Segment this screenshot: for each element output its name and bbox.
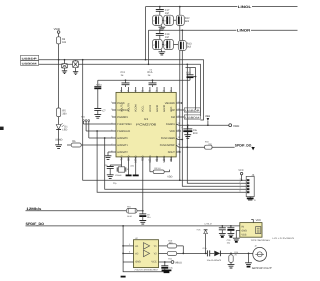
capacitor C18 (filter L output electrolytic) — [176, 6, 190, 26]
diode D3 TVS (shunt up) — [196, 228, 207, 254]
capacitor C26 electrolytic (reg input) — [227, 225, 235, 245]
U1 bottom pin stubs — [122, 157, 172, 163]
wire pin 20 stub — [176, 130, 181, 132]
U1 bottom pin labels — [120, 155, 173, 163]
wire VBUS branch down right — [187, 64, 246, 183]
svg-text:VCC: VCC — [151, 261, 156, 264]
U1 right pin labels — [160, 102, 176, 154]
wire filter L chain — [162, 19, 176, 21]
svg-text:PCM2706: PCM2706 — [136, 123, 156, 127]
junction Y join — [182, 253, 184, 255]
svg-text:HIDDAT2: HIDDAT2 — [117, 151, 128, 154]
node USBDM label at U1 — [176, 115, 200, 120]
svg-text:22p: 22p — [130, 164, 134, 167]
capacitor C20 (filter R electrolytic 1) — [153, 39, 163, 49]
wire HID1 down-route — [97, 131, 246, 192]
U1 pin number texts — [111, 89, 181, 161]
svg-text:VOUTR: VOUTR — [128, 103, 131, 112]
svg-text:10u: 10u — [169, 266, 173, 269]
capacitor C19 (filter R shunt) — [156, 29, 170, 39]
svg-text:1k5: 1k5 — [62, 41, 67, 44]
power VDD testpoint circle — [229, 124, 240, 128]
wire C18 down to lower routing — [179, 25, 181, 180]
wire HID0 row — [89, 137, 116, 139]
svg-text:VSS: VSS — [241, 233, 246, 236]
svg-text:LINOR: LINOR — [237, 29, 251, 33]
svg-text:USBDM: USBDM — [22, 63, 37, 66]
svg-text:RN1: RN1 — [81, 116, 86, 119]
resistor R10 (Y1) — [159, 239, 184, 253]
node SPDIF_DO (right) — [235, 144, 255, 151]
capacitor C24 series (SPDIF out) — [203, 247, 215, 257]
resistor R6 (left of U1) — [67, 140, 116, 147]
svg-text:AGND: AGND — [156, 105, 159, 112]
svg-text:1N4148WS: 1N4148WS — [207, 259, 222, 262]
svg-text:SPDIF_DO: SPDIF_DO — [235, 144, 252, 148]
svg-text:18: 18 — [178, 143, 181, 146]
svg-text:VOUTL: VOUTL — [120, 103, 123, 112]
svg-text:1nF: 1nF — [165, 36, 170, 39]
svg-text:AGND: AGND — [163, 105, 166, 112]
node LINOR rail — [149, 29, 237, 31]
junction shield wire — [82, 59, 84, 61]
junction bus pull-up — [58, 59, 60, 61]
node USBDM (boxed net label, left edge) — [21, 61, 39, 66]
wire SPDIF output line — [183, 252, 207, 254]
wire third bus line — [186, 68, 196, 110]
svg-text:1u: 1u — [121, 74, 124, 77]
ground (pin8 stub) — [105, 152, 116, 159]
svg-text:U3 +3.3VREG: U3 +3.3VREG — [272, 237, 294, 240]
capacitor C6 electrolytic (rail corner chain) — [94, 80, 102, 108]
svg-text:LINOL: LINOL — [238, 5, 252, 9]
ground (under FB2) — [62, 71, 67, 74]
wire VBUS pin stub — [176, 102, 182, 104]
wire filter R feed — [148, 30, 150, 64]
svg-text:USBDP: USBDP — [185, 109, 200, 112]
svg-text:VBB: VBB — [205, 115, 210, 118]
svg-text:GND: GND — [241, 229, 247, 232]
svg-text:VCOM: VCOM — [135, 105, 138, 113]
USB connector J5 — [238, 169, 254, 196]
ground (buffer bottom-left) — [121, 276, 126, 278]
wire analog supply rail above U1 — [98, 79, 185, 81]
node USBDP label at U1 — [176, 108, 200, 113]
junction buffer input — [122, 225, 124, 227]
resistor R3 1.5k pull-up — [57, 37, 67, 60]
stray mark left edge — [0, 127, 4, 130]
resistor network RN1 pull verticals — [81, 116, 90, 138]
svg-text:VDD: VDD — [256, 219, 261, 222]
power VDD (top left) — [54, 27, 61, 37]
wire HID2 down-route — [105, 138, 247, 189]
svg-text:VDD: VDD — [54, 27, 61, 31]
capacitor C10 22p (crystal right) — [126, 163, 135, 175]
ground (RCA shield) — [245, 253, 252, 267]
svg-text:USBDM: USBDM — [185, 116, 199, 119]
svg-text:VDD: VDD — [170, 107, 173, 112]
svg-text:DOUT: DOUT — [168, 151, 176, 154]
svg-text:DM: DM — [171, 116, 175, 119]
svg-text:12Mb/s: 12Mb/s — [26, 207, 41, 211]
power VCC at buffer — [159, 261, 183, 265]
capacitor C21 (filter R electrolytic 2) — [164, 39, 174, 49]
svg-text:FUNC/SPDIF: FUNC/SPDIF — [160, 144, 175, 147]
wire FUNC1 row — [86, 130, 116, 132]
ground (cap chain) — [94, 115, 101, 119]
wire SSPND stub to filter drop — [176, 138, 182, 140]
U1 left pin stubs — [112, 103, 116, 117]
ferrite bead FB1 — [126, 206, 142, 218]
capacitor C15 (filter L electrolytic 1) — [153, 15, 163, 25]
wire C22 down to USB connector pin 3 — [182, 51, 246, 187]
svg-text:DGND1: DGND1 — [166, 123, 175, 126]
capacitor C16 (filter L electrolytic 2) — [164, 15, 174, 25]
wire PSEL stub to loop — [176, 151, 180, 153]
power VDD at regulator output — [251, 219, 261, 223]
ground (pin 11) — [133, 163, 139, 175]
svg-text:VDD: VDD — [167, 176, 172, 179]
ground (regulator) — [233, 230, 240, 241]
svg-text:G: G — [254, 199, 256, 202]
resistor R16 on SPDIF out row — [176, 141, 235, 150]
svg-text:L2 BLM: L2 BLM — [204, 223, 211, 226]
wire FUNC0 row — [83, 123, 116, 125]
U1 top pin labels — [120, 103, 173, 112]
U1 top pin stubs — [122, 87, 172, 92]
svg-text:SPDIFOUT: SPDIFOUT — [252, 267, 273, 270]
svg-text:GND: GND — [135, 261, 141, 264]
svg-text:+: + — [181, 127, 183, 130]
capacitor C8 electrolytic (bead junction) — [139, 211, 151, 224]
capacitor C7 (second in chain) — [94, 109, 106, 115]
svg-text:FGND/AUX: FGND/AUX — [117, 130, 130, 133]
capacitor C23 (buffer VCC) — [161, 261, 173, 270]
svg-text:VCCR: VCCR — [149, 105, 152, 112]
svg-text:VBUS: VBUS — [175, 262, 182, 265]
capacitor C25 (reg input) — [219, 225, 226, 237]
svg-text:PGNDRX: PGNDRX — [117, 116, 128, 119]
resistor R11 (Y2) — [159, 251, 184, 260]
svg-text:C13: C13 — [186, 71, 191, 74]
svg-text:BLM: BLM — [127, 215, 132, 218]
svg-text:R6: R6 — [72, 140, 76, 143]
svg-text:6V3: 6V3 — [193, 132, 198, 135]
capacitor C11 (decoupling above U1) — [121, 71, 130, 87]
svg-text:FUNCTION0: FUNCTION0 — [117, 123, 132, 126]
ground (filter L) — [159, 25, 166, 30]
wire filter L feed — [145, 7, 147, 60]
svg-text:1u: 1u — [148, 74, 151, 77]
buffer IC U2 body — [134, 237, 159, 271]
svg-text:VDD: VDD — [170, 130, 175, 133]
svg-text:74LVC2G34DBV: 74LVC2G34DBV — [134, 268, 159, 271]
ground (under FB3) — [73, 72, 78, 75]
buffer input wires — [122, 243, 133, 262]
svg-text:VBUS5D: VBUS5D — [165, 102, 175, 105]
svg-text:VCC: VCC — [238, 169, 243, 172]
svg-text:1nF: 1nF — [165, 12, 170, 15]
svg-text:IN: IN — [241, 225, 244, 228]
power VBUS tap — [205, 115, 210, 125]
ground (C9) — [107, 175, 114, 179]
svg-text:HIDDAT1: HIDDAT1 — [117, 144, 128, 147]
connector J2 RCA jack SPDIFOUT — [252, 244, 273, 269]
svg-text:C7: C7 — [102, 110, 106, 113]
capacitor C17 (filter L shunt) — [156, 6, 170, 15]
svg-text:10u: 10u — [147, 216, 151, 219]
svg-text:0.1u: 0.1u — [203, 247, 208, 250]
LED D1 chain — [55, 60, 68, 149]
ground (filter R) — [159, 50, 166, 55]
svg-text:3k3: 3k3 — [187, 45, 192, 48]
crystal X1 12MHz — [115, 165, 130, 177]
capacitor C12 (decoupling above U1) — [148, 71, 157, 87]
svg-text:USBDP: USBDP — [22, 57, 38, 60]
wire USBDM bus line — [39, 64, 201, 116]
node LINOL rail — [146, 6, 238, 8]
svg-text:VDD: VDD — [233, 124, 240, 128]
capacitor C9 22p (crystal left) — [104, 163, 121, 175]
node USBDP (boxed net label, left edge) — [21, 55, 39, 60]
svg-text:J2: J2 — [254, 244, 257, 247]
ground (USB connector) — [247, 197, 256, 202]
svg-text:U1: U1 — [144, 117, 148, 121]
ferrite bead FB3 on USBDM — [73, 60, 79, 72]
op IC U1 PCM2706 body — [116, 92, 176, 156]
capacitor C13 electrolytic (rail end, right of U1) — [185, 68, 196, 81]
capacitor C14 electrolytic on VDD row — [181, 124, 198, 138]
svg-text:22p: 22p — [113, 182, 117, 185]
junction clock/bead — [142, 210, 144, 212]
wire USBDP bus line — [39, 60, 204, 120]
ferrite bead FB2 on USBDP — [61, 59, 67, 71]
svg-text:TVS: TVS — [196, 228, 201, 231]
svg-text:LED: LED — [62, 129, 67, 132]
svg-text:12MHz: 12MHz — [115, 174, 122, 177]
ground (C23 / rail end) — [162, 270, 172, 272]
svg-text:HIDDAT0: HIDDAT0 — [117, 137, 128, 140]
svg-text:TPS79533DBV: TPS79533DBV — [251, 239, 271, 242]
svg-text:3k3: 3k3 — [185, 20, 190, 23]
svg-text:330: 330 — [62, 113, 67, 116]
svg-text:VCCL: VCCL — [142, 105, 145, 112]
node 12Mb/s line — [26, 207, 127, 211]
resistor R9 (pin 13 to VDD) — [150, 163, 173, 179]
capacitor C22 (filter R output electrolytic) — [178, 29, 192, 50]
svg-text:R9 1M: R9 1M — [154, 167, 160, 170]
U1 left pin labels — [117, 102, 132, 154]
resistor R14 75R shunt — [228, 251, 239, 268]
diode D2 series — [207, 251, 253, 262]
wire shield loop to USB connector pin 1 — [83, 60, 247, 181]
svg-text:R11: R11 — [168, 258, 173, 261]
wire VDD row from U1 pin 21 — [176, 124, 229, 125]
wire filter R chain — [162, 44, 178, 46]
node SPDIF_DO bottom rail — [26, 222, 240, 226]
wire buffer input drop — [123, 226, 167, 272]
wire clock feed pin 12 down — [142, 163, 144, 211]
svg-text:19: 19 — [178, 136, 181, 139]
regulator U3 body — [240, 223, 262, 238]
svg-text:FUNCUSBR: FUNCUSBR — [161, 137, 175, 140]
